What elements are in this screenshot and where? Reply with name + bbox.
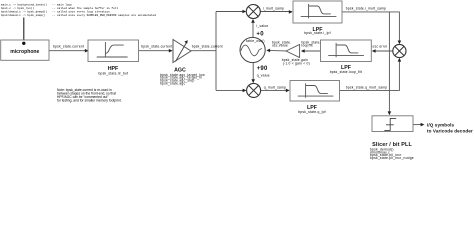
svg-text:bpsk_state.current: bpsk_state.current — [141, 44, 172, 48]
svg-text:microphone: microphone — [10, 49, 39, 55]
svg-text:bpsk/demod.c -> bpsk_demod(): bpsk/demod.c -> bpsk_demod() — [1, 10, 48, 14]
svg-text:bpsk_state.current: bpsk_state.current — [192, 44, 223, 48]
svg-text:bpsk_state.pll_incr_nudge: bpsk_state.pll_incr_nudge — [370, 156, 414, 160]
svg-text:osc error: osc error — [372, 45, 388, 49]
svg-text:-- called once every SAMPLES_P: -- called once every SAMPLES_PER_PERIOD … — [52, 13, 156, 17]
svg-text:i_mult_samp: i_mult_samp — [263, 6, 284, 10]
svg-text:bpsk.c -> bpsk_run(): bpsk.c -> bpsk_run() — [1, 6, 34, 10]
svg-text:bpsk_state.iir_buf: bpsk_state.iir_buf — [98, 72, 128, 76]
svg-text:-- called once every loop iter: -- called once every loop iteration — [52, 10, 110, 14]
svg-text:loopfilt: loopfilt — [302, 44, 313, 48]
svg-text:bpsk_state.i_mult_samp: bpsk_state.i_mult_samp — [346, 6, 386, 10]
svg-text:osc.value: osc.value — [272, 44, 288, 48]
svg-text:bpsk_state.q_mult_samp: bpsk_state.q_mult_samp — [346, 85, 388, 89]
svg-text:-- main loop: -- main loop — [52, 3, 72, 7]
svg-text:-- called when the sample buff: -- called when the sample buffer is full — [52, 6, 118, 10]
svg-text:i_value: i_value — [256, 24, 268, 28]
svg-text:table_osc(): table_osc() — [246, 39, 265, 43]
svg-text:bpsk_state.current: bpsk_state.current — [53, 44, 84, 48]
svg-text:(-1.0 < gain < 0): (-1.0 < gain < 0) — [283, 62, 310, 66]
svg-text:I/Q symbols: I/Q symbols — [427, 122, 454, 127]
svg-text:+0: +0 — [256, 31, 264, 37]
svg-text:bpsk_state.loop_filt: bpsk_state.loop_filt — [330, 70, 363, 74]
svg-text:bpsk_state.q_lpf: bpsk_state.q_lpf — [298, 110, 326, 114]
svg-text:to Varicode decoder: to Varicode decoder — [427, 128, 473, 133]
svg-text:bpsk/demod.c -> bpsk_samp(): bpsk/demod.c -> bpsk_samp() — [1, 13, 46, 17]
svg-text:bpsk_state.i_lpf: bpsk_state.i_lpf — [304, 31, 330, 35]
svg-text:for testing, and for smaller m: for testing, and for smaller memory foot… — [57, 99, 122, 103]
svg-text:q_mult_samp: q_mult_samp — [264, 85, 286, 89]
svg-text:main.c -> background_tasks(): main.c -> background_tasks() — [1, 3, 48, 7]
svg-text:bpsk_state.agc: bpsk_state.agc — [160, 81, 185, 85]
svg-text:q_value: q_value — [257, 74, 270, 78]
svg-text:+90: +90 — [257, 66, 268, 72]
